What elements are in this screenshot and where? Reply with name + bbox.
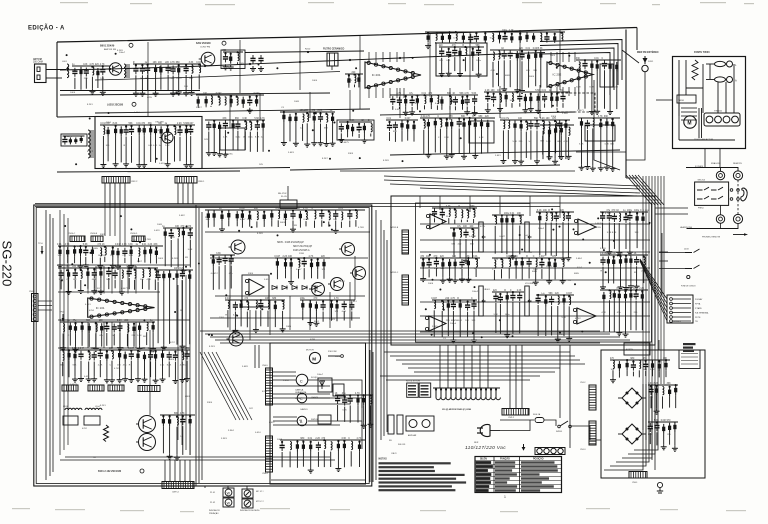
wire: [503, 60, 505, 86]
svg-text:REMOTE: REMOTE: [733, 163, 743, 165]
resistor R19: [114, 126, 117, 136]
wire: [428, 269, 430, 277]
wire: [514, 131, 516, 159]
scattered tiny labels tuner: [65, 50, 584, 166]
wire: [285, 269, 287, 278]
svg-text:SW 204: SW 204: [698, 180, 706, 182]
cluster top rail: [420, 257, 480, 259]
junction dot: [325, 113, 327, 115]
resistor R168: [422, 259, 425, 269]
junction dot: [173, 125, 175, 127]
wire: [100, 278, 102, 288]
svg-text:8.2K7: 8.2K7: [87, 151, 93, 153]
svg-text:FRAG FM: FRAG FM: [711, 162, 721, 165]
wire: [562, 103, 564, 108]
capacitor C57: [169, 230, 174, 239]
svg-text:10K: 10K: [648, 434, 652, 436]
svg-text:FUNÇÃO: FUNÇÃO: [500, 458, 510, 461]
wire: [246, 312, 248, 328]
ceramic filter FL201: [327, 53, 338, 70]
ground: [514, 87, 520, 93]
junction dot: [501, 214, 503, 216]
wire: [449, 106, 451, 110]
ground: [654, 409, 660, 415]
junction dot: [484, 32, 486, 34]
resistor R11: [516, 51, 519, 61]
junction dot: [241, 210, 243, 212]
svg-text:10K7: 10K7: [559, 334, 565, 336]
resistor R135: [284, 259, 287, 269]
junction dot: [358, 74, 360, 76]
ground: [627, 250, 633, 256]
svg-text:2.2K6: 2.2K6: [643, 210, 650, 212]
wire: [669, 433, 671, 445]
wire: [626, 370, 628, 376]
svg-text:T.M.OSC: T.M.OSC: [224, 154, 233, 156]
wire: [357, 405, 359, 422]
junction dot: [658, 360, 660, 362]
inductor L33: [326, 114, 327, 122]
wire: [190, 136, 192, 162]
resistor R27: [185, 126, 188, 136]
capacitor C46: [468, 34, 473, 43]
junction dot: [130, 125, 132, 127]
resistor R161: [511, 215, 514, 225]
resistor R117: [100, 323, 103, 333]
svg-text:5.6K: 5.6K: [472, 93, 477, 95]
resistor R92: [611, 119, 614, 129]
connector CN10-C: [70, 236, 85, 242]
junction dot: [108, 267, 110, 269]
junction dot: [349, 394, 351, 396]
wire: [370, 134, 372, 137]
resistor R184: [602, 292, 605, 302]
ground: [566, 336, 572, 342]
svg-text:4.7K5: 4.7K5: [114, 368, 120, 370]
inductor L195: [563, 258, 564, 266]
capacitor C20: [129, 126, 134, 135]
ground: [457, 71, 463, 77]
ground: [135, 376, 141, 382]
svg-text:3.3K: 3.3K: [446, 206, 451, 208]
svg-text:SW204-2: SW204-2: [673, 321, 681, 323]
resistor R149: [220, 212, 223, 222]
resistor R90: [599, 120, 602, 130]
junction dot: [439, 118, 441, 120]
capacitor C120: [342, 397, 347, 406]
junction dots mid: [61, 215, 333, 336]
svg-text:4702: 4702: [82, 428, 88, 430]
cluster top rail: [490, 49, 545, 51]
resistor R110: [168, 271, 171, 281]
junction dot: [520, 120, 522, 122]
inductor L85: [593, 118, 594, 126]
inductor L123: [85, 408, 102, 410]
ground: [420, 276, 426, 282]
ground: [333, 228, 339, 234]
resistor R204: [618, 361, 621, 371]
svg-text:FILTRO CERAMICO: FILTRO CERAMICO: [323, 48, 344, 51]
diagonal bus top right: [626, 175, 664, 205]
wire: [155, 258, 157, 264]
junction dot: [181, 269, 183, 271]
wire: [498, 61, 500, 87]
wire: [411, 107, 413, 110]
wire: [310, 452, 312, 468]
resistor R93: [58, 247, 61, 257]
junction dot: [635, 290, 637, 292]
jack REMOTE upper: [733, 171, 742, 180]
svg-text:3.3K6: 3.3K6: [600, 248, 607, 250]
inductor L13: [465, 47, 466, 55]
svg-text:33K: 33K: [635, 232, 639, 234]
resistor R208: [664, 360, 667, 370]
svg-text:NDR: NDR: [474, 442, 479, 444]
wire: [143, 135, 145, 162]
capacitor C123: [316, 442, 321, 451]
wire: [117, 258, 119, 264]
svg-text:1001: 1001: [485, 289, 491, 291]
ground: [66, 289, 72, 295]
ground: [616, 250, 622, 256]
ground: [293, 141, 299, 147]
wire power internal 2: [702, 64, 704, 113]
junction dot: [422, 258, 424, 260]
junction dot: [349, 209, 351, 211]
svg-text:110/127/220 Vac: 110/127/220 Vac: [465, 445, 506, 451]
svg-text:5.6K9: 5.6K9: [242, 366, 248, 368]
svg-text:0.047: 0.047: [239, 208, 245, 210]
svg-text:MT 1C 2: MT 1C 2: [256, 501, 265, 503]
resistor R162: [538, 213, 541, 223]
junction dot: [554, 120, 556, 122]
wire: [441, 58, 443, 71]
junction dot: [459, 299, 461, 301]
capacitor C89: [319, 210, 324, 219]
capacitor C125: [648, 423, 653, 432]
resistor R94: [66, 247, 69, 257]
right bundle extension: [604, 384, 658, 470]
resistor R88: [615, 62, 618, 72]
inductor L151: [356, 210, 357, 218]
resistor R164: [459, 300, 462, 310]
wire: [441, 311, 443, 337]
wire: [560, 135, 562, 154]
wire: [325, 124, 327, 141]
wire: [521, 268, 523, 279]
capacitor C94: [463, 229, 468, 238]
resistor R65: [537, 93, 540, 103]
svg-text:56K: 56K: [471, 206, 476, 208]
ground: [628, 283, 634, 289]
test point arrow: [41, 246, 44, 255]
cluster top rail: [100, 124, 195, 126]
wire: [449, 269, 451, 277]
ground: [552, 159, 558, 165]
ground: [176, 90, 182, 96]
inductor L103: [149, 268, 150, 276]
wire: [107, 137, 109, 161]
junction dot: [545, 295, 547, 297]
resistor R100: [130, 247, 133, 257]
ground: [606, 249, 612, 255]
wire: [91, 257, 93, 264]
capacitor C113: [612, 213, 617, 222]
junction dot: [550, 211, 552, 213]
wire: [95, 333, 97, 346]
wire: [87, 279, 89, 289]
capacitor C40: [472, 96, 477, 105]
marker circle: [140, 469, 144, 473]
resistor R22: [143, 125, 146, 135]
cluster top rail: [72, 65, 110, 67]
svg-text:TP-6: TP-6: [38, 243, 44, 245]
junction dot: [224, 52, 226, 54]
wire: [302, 124, 304, 141]
wire: [542, 131, 544, 159]
resistor R56: [255, 96, 258, 106]
resistor R36: [288, 114, 291, 124]
wire: [130, 257, 132, 264]
wire tuner bus: [390, 150, 620, 155]
junction dot: [150, 124, 152, 126]
svg-text:5.6K: 5.6K: [562, 317, 567, 319]
resistor R102: [149, 246, 152, 256]
wire: [446, 129, 448, 153]
capacitor C79: [217, 256, 222, 265]
junction dot: [262, 119, 264, 121]
wire: [562, 268, 564, 278]
svg-text:0.0476: 0.0476: [595, 223, 602, 225]
wire: [448, 218, 450, 223]
capacitor C86: [342, 301, 347, 310]
ground: [98, 289, 104, 295]
meter MC2: [242, 499, 253, 508]
junction dot: [337, 440, 339, 442]
resistor R192: [296, 442, 299, 452]
capacitor C83: [233, 302, 238, 311]
resistor R179: [607, 256, 610, 266]
wire: [91, 77, 93, 89]
capacitor C38: [453, 96, 458, 105]
resistor R77: [532, 33, 535, 42]
svg-text:0.01: 0.01: [142, 244, 147, 246]
switch R161: [328, 355, 343, 358]
junction dot: [249, 211, 251, 213]
capacitor C118: [634, 291, 639, 300]
wire: [544, 103, 546, 107]
wire: [618, 301, 620, 330]
fuse F004: [500, 418, 544, 423]
junction dot: [411, 96, 413, 98]
inductor L601B tall coil: [88, 130, 93, 158]
wire hook row harness: [433, 388, 500, 400]
inductor L131: [247, 302, 248, 310]
connector CNP-2: [502, 409, 529, 416]
junction dot: [656, 421, 658, 423]
svg-text:1009: 1009: [415, 95, 421, 97]
wire: [290, 269, 292, 279]
capacitor C116: [600, 257, 605, 266]
inductor L15: [493, 52, 494, 60]
wire tuner bus: [200, 168, 290, 169]
ground: [547, 154, 553, 160]
op-amp IC203 L: [574, 219, 596, 235]
junction dot: [519, 33, 521, 35]
legend table: [475, 457, 562, 493]
ground: [566, 154, 572, 160]
junction dot: [560, 124, 562, 126]
wire: [555, 223, 557, 256]
wire: [487, 103, 489, 107]
svg-text:FREQ: FREQ: [698, 208, 704, 210]
junction dot: [321, 209, 323, 211]
wire inter-section bus: [384, 176, 640, 186]
svg-text:0.047: 0.047: [566, 293, 572, 295]
wire right mute rail: [576, 151, 626, 153]
resistor R197: [358, 442, 361, 452]
svg-text:MER FM ESTÉREO: MER FM ESTÉREO: [637, 51, 659, 54]
svg-text:L601: L601: [62, 61, 68, 63]
resistor R58: [416, 96, 419, 106]
svg-text:8.2K: 8.2K: [179, 268, 184, 270]
inductor L167: [495, 216, 496, 224]
resistor R172: [467, 258, 470, 268]
wire: [467, 312, 469, 337]
junction dot: [608, 289, 610, 291]
resistor R199: [668, 387, 671, 397]
svg-text:5.6K: 5.6K: [83, 244, 88, 246]
junction dot: [135, 64, 137, 66]
wire: [102, 136, 104, 162]
wire: [282, 311, 284, 327]
inductor L25: [250, 122, 251, 130]
junction dot: [260, 299, 262, 301]
resistor R86: [596, 61, 599, 71]
cluster top rail: [133, 63, 201, 65]
junction dot: [521, 257, 523, 259]
svg-text:8.2K9: 8.2K9: [383, 160, 389, 162]
resistor R194: [309, 442, 312, 452]
junction dot: [80, 269, 82, 271]
svg-text:0.047: 0.047: [296, 269, 302, 271]
cluster top rail: [432, 207, 477, 209]
capacitor C53: [602, 60, 607, 69]
wire: [185, 75, 187, 90]
svg-text:3.3K: 3.3K: [129, 255, 134, 257]
wire: [277, 220, 279, 227]
wire: [441, 106, 443, 109]
svg-text:100u: 100u: [476, 60, 482, 62]
resistor R167: [562, 295, 565, 305]
inductor L97: [122, 270, 123, 278]
cluster top rail: [390, 94, 478, 96]
wire: [358, 134, 360, 138]
capacitor C12: [446, 49, 451, 58]
wire: [349, 221, 351, 228]
svg-text:56K: 56K: [73, 364, 77, 366]
transistor Q7: [339, 243, 355, 256]
resistor R51: [564, 121, 567, 131]
page background noise bottom edge: [12, 508, 746, 512]
inductor L81: [569, 127, 570, 135]
svg-text:M: M: [687, 120, 691, 126]
wire: [276, 268, 278, 279]
resistor R118: [132, 324, 135, 334]
capacitor C17: [519, 51, 524, 60]
svg-text:3.3K: 3.3K: [342, 409, 347, 411]
inductor L101: [142, 269, 143, 277]
AM block sub-outline: [95, 117, 202, 169]
svg-text:4.7K: 4.7K: [147, 279, 152, 281]
junction dot: [336, 300, 338, 302]
wire: [669, 397, 671, 408]
inductor L187: [494, 260, 495, 268]
junction dot: [530, 93, 532, 95]
svg-text:0.012: 0.012: [159, 163, 165, 165]
box: [221, 50, 245, 69]
ground: [136, 162, 142, 168]
wire: [62, 362, 64, 376]
wire: [473, 219, 475, 223]
transistor Q8: [350, 267, 366, 280]
ground: [368, 422, 374, 428]
wire: [328, 222, 330, 227]
capacitor C121: [348, 395, 353, 404]
wire: [88, 333, 90, 347]
wire: [138, 135, 140, 162]
inductor L83: [579, 62, 580, 70]
svg-text:4.7K2: 4.7K2: [131, 240, 137, 242]
wire: [407, 132, 409, 141]
wire: [189, 240, 191, 268]
wire: [519, 226, 521, 255]
inductor L55: [225, 97, 226, 105]
wire: [636, 266, 638, 283]
svg-text:0.0474: 0.0474: [469, 236, 476, 238]
wire: [464, 57, 466, 71]
svg-text:10K5: 10K5: [158, 258, 164, 260]
junction dot: [64, 136, 66, 138]
inductor L125: [177, 417, 178, 425]
ground: [500, 158, 506, 164]
ground: [153, 91, 159, 97]
wire: [433, 310, 435, 336]
cluster top rail: [339, 121, 372, 123]
capacitor C25: [235, 121, 240, 130]
ground: [97, 263, 103, 269]
wire: [160, 75, 162, 90]
svg-text:IC 201: IC 201: [372, 73, 381, 77]
svg-text:P.FTA: P.FTA: [695, 303, 701, 306]
wire: [335, 221, 337, 228]
wire: [255, 310, 257, 327]
ground: [170, 91, 176, 97]
wire: [182, 426, 184, 455]
wire: [467, 268, 469, 277]
junction dot: [551, 93, 553, 95]
junction dot: [74, 350, 76, 352]
svg-text:4.7K: 4.7K: [170, 62, 175, 64]
cluster top rail: [280, 439, 365, 441]
resistor R166: [544, 297, 547, 307]
ground: [72, 377, 78, 383]
svg-text:2.2K: 2.2K: [485, 90, 490, 92]
ground: [180, 268, 186, 274]
resistor R84: [560, 125, 563, 135]
svg-text:CN2-2: CN2-2: [131, 181, 138, 183]
connector CN6-4: [266, 436, 273, 472]
